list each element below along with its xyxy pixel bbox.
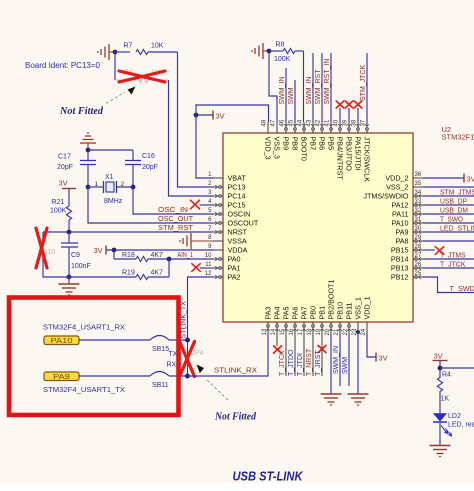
svg-text:SWM_IN: SWM_IN	[333, 346, 340, 374]
svg-text:8MHz: 8MHz	[104, 198, 123, 205]
svg-text:PB3/JTDO: PB3/JTDO	[345, 137, 354, 172]
node junction LED net	[438, 366, 443, 371]
pin 1 VBAT	[213, 177, 223, 179]
wire SB15 to JP4	[169, 339, 188, 341]
X over SB10	[36, 228, 47, 268]
svg-text:PB14: PB14	[391, 255, 409, 264]
svg-text:PB10: PB10	[336, 302, 345, 320]
wire 3V to R4	[439, 361, 441, 379]
X pin 11 PA1	[192, 264, 200, 272]
ground GND2 (for R8/VSS_3)	[262, 43, 264, 59]
svg-text:11: 11	[205, 262, 212, 268]
pin 36 VDD_2	[413, 177, 423, 179]
wire net STLINK_TX (vertical to PA2)	[188, 277, 214, 340]
X pin 38	[354, 101, 362, 108]
svg-text:PA6: PA6	[291, 306, 300, 319]
svg-text:VSS_2: VSS_2	[386, 183, 408, 192]
svg-text:29: 29	[415, 235, 422, 241]
wire LED to ground	[439, 422, 441, 446]
svg-text:27: 27	[415, 253, 422, 259]
wire pin 35 VSS_2	[423, 186, 474, 188]
pin 8 VSSA	[213, 240, 223, 242]
svg-text:10: 10	[205, 253, 212, 259]
svg-text:45: 45	[289, 119, 295, 126]
svg-text:JTMS/SWDIO: JTMS/SWDIO	[363, 192, 409, 201]
svg-text:VSS_1: VSS_1	[354, 297, 363, 319]
wire net USB_DP (pin 33)	[423, 204, 474, 206]
svg-text:3V: 3V	[379, 354, 388, 363]
svg-text:100K: 100K	[274, 56, 291, 63]
svg-text:T_JTCK: T_JTCK	[440, 262, 466, 269]
svg-text:18: 18	[307, 328, 313, 335]
wire net SWM (pin 45 PB8)	[294, 80, 296, 122]
svg-text:40: 40	[334, 119, 340, 126]
svg-text:14: 14	[271, 328, 277, 335]
node junction JP4 top	[185, 338, 190, 343]
pin 44 BOOT0	[303, 122, 305, 133]
wire R6 branch down	[114, 52, 116, 80]
svg-text:36: 36	[415, 172, 422, 178]
svg-text:100nF: 100nF	[71, 263, 91, 270]
pin 34 JTMS/SWDIO	[413, 195, 423, 197]
svg-text:SWM_RST: SWM_RST	[315, 69, 322, 105]
pin 43 PB7	[312, 122, 314, 133]
pin 3 PC14	[213, 195, 223, 197]
wire net SWM_IN (pin 43 PB7)	[312, 53, 314, 122]
wire SB11 to JP4	[169, 375, 188, 377]
svg-text:T_JTDI: T_JTDI	[297, 353, 304, 376]
pin 24 VDD_1	[366, 322, 368, 333]
wire gnd to C16	[88, 149, 133, 151]
svg-text:VSS_3: VSS_3	[273, 137, 282, 159]
pin 20 PB2/BOOT1	[330, 322, 332, 333]
svg-text:STLINK_RX: STLINK_RX	[214, 368, 257, 375]
wire R8 to BOOT0 pin 44	[303, 51, 305, 122]
pin 41 PB5	[330, 122, 332, 133]
solder bridge SB11	[150, 372, 169, 377]
svg-text:PB4/JNTRST: PB4/JNTRST	[336, 137, 345, 181]
svg-text:OSC_OUT: OSC_OUT	[158, 216, 194, 223]
svg-text:PC14: PC14	[228, 192, 246, 201]
pin 14 PA4	[276, 322, 278, 333]
svg-text:T_JTMS: T_JTMS	[440, 253, 466, 260]
svg-text:PC13: PC13	[228, 183, 246, 192]
svg-text:100K: 100K	[50, 208, 67, 215]
svg-text:PA3: PA3	[264, 306, 273, 319]
svg-text:PB15: PB15	[391, 246, 409, 255]
capacitor C9	[68, 232, 70, 243]
svg-text:OSC_IN: OSC_IN	[158, 207, 188, 214]
svg-text:PA9: PA9	[53, 374, 70, 381]
svg-text:41: 41	[325, 119, 331, 126]
wire net LED_STLINK (pin 30)	[423, 231, 474, 233]
node junction C9/GND/R19	[67, 275, 72, 280]
svg-text:3V: 3V	[216, 112, 225, 121]
pin 6 OSCOUT	[213, 222, 223, 224]
svg-text:31: 31	[415, 217, 422, 223]
resistor R8	[269, 50, 283, 52]
pin 32 PA11	[413, 213, 423, 215]
pin 9 VDDA	[213, 249, 223, 251]
svg-text:35: 35	[415, 181, 422, 187]
IC U2 STM32F103 body	[223, 133, 413, 322]
X pin 4 PC15	[191, 200, 200, 209]
wire pin 29 PA8	[423, 240, 474, 242]
node junction 3V/R18	[112, 248, 117, 253]
svg-text:LED, red: LED, red	[448, 422, 474, 429]
svg-text:39: 39	[343, 119, 349, 126]
svg-text:28: 28	[415, 244, 422, 250]
svg-text:PB9: PB9	[282, 137, 291, 151]
X pin 40	[336, 101, 344, 108]
svg-text:46: 46	[280, 119, 286, 126]
pin 10 PA0	[213, 258, 223, 260]
svg-text:PA10: PA10	[391, 219, 408, 228]
wire net T_JTDI (pin 17)	[303, 333, 305, 376]
svg-text:LD2: LD2	[448, 413, 461, 420]
svg-text:PB12: PB12	[391, 273, 409, 282]
ground GND6 (VSS_1)	[348, 393, 369, 395]
svg-text:PB0: PB0	[309, 306, 318, 320]
svg-text:USB_DP: USB_DP	[440, 199, 467, 206]
svg-text:PA4: PA4	[273, 306, 282, 319]
wire net SWM_RST_IN (pin 41 PB5)	[330, 53, 332, 122]
svg-text:R4: R4	[442, 372, 451, 379]
svg-text:3V: 3V	[59, 179, 68, 188]
solder bridge SB10 (not fitted)	[43, 232, 69, 277]
wire net T_JTMS (pin 27)	[423, 258, 474, 260]
wire net SWM_IN (pin 21)	[339, 333, 341, 386]
node X1 pin2	[131, 185, 136, 190]
node junction R7/R6/GND	[113, 50, 118, 55]
svg-text:43: 43	[307, 119, 313, 126]
pin 48 VDD_3	[267, 122, 269, 133]
node junction 3V/VBAT	[194, 113, 199, 118]
X pin 14 (PA4)	[276, 333, 278, 346]
svg-text:C9: C9	[71, 252, 80, 259]
wire pin 20 to ground	[330, 333, 332, 394]
svg-text:PA7: PA7	[300, 306, 309, 319]
svg-text:Not Fitted: Not Fitted	[59, 106, 104, 117]
svg-text:T_JTCK: T_JTCK	[279, 350, 286, 376]
svg-text:PB8: PB8	[291, 137, 300, 151]
power 3V (VBAT)	[212, 111, 214, 120]
svg-text:JP4: JP4	[192, 350, 204, 357]
wire net OSC_OUT	[88, 187, 213, 223]
svg-text:STM32F4_USART1_TX: STM32F4_USART1_TX	[43, 385, 125, 394]
wire pin 23 to ground	[357, 333, 359, 394]
node junction R21/C9/STM_RST	[67, 230, 72, 235]
svg-text:SB11: SB11	[152, 382, 169, 389]
svg-text:PB13: PB13	[391, 264, 409, 273]
svg-text:3V: 3V	[467, 175, 474, 184]
svg-text:3V: 3V	[94, 246, 103, 255]
svg-text:20pF: 20pF	[57, 164, 73, 171]
pin 33 PA12	[413, 204, 423, 206]
svg-text:T_JRST: T_JRST	[315, 350, 322, 376]
svg-text:SWM_IN: SWM_IN	[279, 77, 286, 105]
pin 13 PA3	[267, 322, 269, 333]
pin 19 PB1	[321, 322, 323, 333]
svg-text:23: 23	[352, 328, 358, 335]
svg-text:21: 21	[334, 328, 340, 335]
svg-text:SWM: SWM	[342, 357, 349, 374]
power 3V (VDD_2)	[463, 174, 465, 183]
crystal X1	[88, 186, 104, 188]
svg-text:10K: 10K	[151, 43, 164, 50]
pin 12 PA2	[213, 276, 223, 278]
pin 15 PA5	[285, 322, 287, 333]
ground GND1 (top-left, for R7)	[108, 44, 110, 60]
svg-text:34: 34	[415, 190, 422, 196]
svg-text:22: 22	[343, 328, 349, 335]
X over JP4	[180, 342, 195, 377]
svg-text:15: 15	[280, 328, 286, 335]
svg-text:VSSA: VSSA	[228, 237, 247, 246]
svg-text:C17: C17	[58, 154, 71, 161]
port PA10	[44, 336, 79, 345]
wire stub pin 39 (not fitted)	[348, 108, 350, 122]
node pin 23	[356, 330, 360, 334]
wire R6 to PC14	[169, 80, 214, 196]
ground GND4 (C9)	[68, 277, 70, 284]
wire VDDA	[106, 249, 213, 251]
svg-text:13: 13	[262, 328, 268, 335]
svg-text:4K7: 4K7	[151, 270, 164, 277]
svg-text:R18: R18	[122, 252, 135, 259]
wire net SWM_IN (pin 46 PB9)	[285, 68, 287, 122]
pin 31 PA10	[413, 222, 423, 224]
capacitor C17	[87, 150, 89, 161]
svg-text:PB11: PB11	[345, 302, 354, 319]
svg-text:R19: R19	[122, 270, 135, 277]
resistor R7	[136, 50, 148, 55]
pin 5 OSCIN	[213, 213, 223, 215]
svg-text:33: 33	[415, 199, 422, 205]
pin 38 PA15/JTDI	[357, 122, 359, 133]
svg-text:17: 17	[298, 328, 304, 335]
svg-text:USB ST-LINK: USB ST-LINK	[233, 470, 304, 484]
svg-text:STM32F103CBT6: STM32F103CBT6	[442, 133, 474, 142]
svg-text:SWM_IN: SWM_IN	[306, 77, 313, 105]
pin 22 PB11	[348, 322, 350, 333]
resistor R19	[69, 276, 136, 278]
svg-text:PA9: PA9	[395, 228, 408, 237]
port PA9	[44, 372, 79, 381]
svg-text:25: 25	[415, 271, 422, 277]
wire net OSC_IN	[133, 187, 213, 214]
svg-text:PA11: PA11	[392, 210, 409, 219]
solder bridge SB15	[150, 336, 169, 341]
pin 4 PC15	[213, 204, 223, 206]
wire net STM_RST	[43, 231, 213, 233]
pin 2 PC13	[213, 186, 223, 188]
svg-text:R21: R21	[52, 199, 65, 206]
svg-text:PC15: PC15	[228, 201, 246, 210]
wire LED net to edge	[440, 367, 474, 369]
wire net SWM_RST (pin 42 PB6)	[321, 53, 323, 122]
wire stub pin 38 (not fitted)	[357, 108, 359, 122]
pin 26 PB13	[413, 267, 423, 269]
svg-text:VDDA: VDDA	[228, 246, 248, 255]
svg-text:SWM: SWM	[288, 87, 295, 104]
svg-text:STM_JTCK: STM_JTCK	[360, 65, 367, 102]
node junction R18/R19	[167, 257, 172, 262]
svg-text:PA15/JTDI: PA15/JTDI	[354, 137, 363, 171]
wire net USB_DM (pin 32)	[423, 213, 474, 215]
svg-text:PA0: PA0	[228, 255, 241, 264]
svg-text:VDD_1: VDD_1	[363, 296, 372, 319]
svg-text:Not Fitted: Not Fitted	[214, 412, 257, 423]
wire to VBAT pin 1	[196, 115, 213, 178]
not-fitted X over R6	[119, 71, 165, 82]
svg-text:PA5: PA5	[282, 306, 291, 319]
red highlight rectangle	[9, 298, 179, 416]
wire net T_JTCK (pin 26)	[423, 267, 474, 269]
svg-text:OSCIN: OSCIN	[228, 210, 251, 219]
svg-text:PB1: PB1	[318, 306, 327, 320]
pin 39 PB3/JTDO	[348, 122, 350, 133]
pin 28 PB15	[413, 249, 423, 251]
pin 11 PA1	[213, 267, 223, 269]
svg-text:VDD_2: VDD_2	[385, 174, 408, 183]
resistor R18	[113, 250, 115, 259]
resistor R6 (not fitted, grayed)	[115, 79, 136, 81]
wire PA10 to SB15	[79, 339, 150, 341]
node X1 pin1	[86, 185, 91, 190]
svg-text:4K7: 4K7	[151, 252, 164, 259]
jumper JP4 (not fitted)	[187, 340, 189, 376]
wire 3V to VBAT and VDD_3	[196, 114, 213, 116]
svg-text:1K: 1K	[441, 396, 450, 403]
svg-text:STM_JTMS: STM_JTMS	[440, 190, 474, 197]
svg-text:16: 16	[289, 328, 295, 335]
ground GND8 (VSSA pin 8)	[190, 233, 192, 249]
wire pin 24 to 3V	[367, 333, 376, 357]
svg-text:37: 37	[361, 119, 367, 126]
ground GND7 (LD2)	[430, 445, 451, 447]
pin 46 PB9	[285, 122, 287, 133]
svg-text:32: 32	[415, 208, 422, 214]
pin 29 PA8	[413, 240, 423, 242]
svg-text:26: 26	[415, 262, 422, 268]
svg-text:48: 48	[262, 119, 268, 126]
ground GND5 (PB2/BOOT1)	[321, 393, 342, 395]
svg-text:PB6: PB6	[318, 137, 327, 151]
svg-text:Board Ident: PC13=0: Board Ident: PC13=0	[25, 61, 101, 70]
svg-text:C16: C16	[142, 153, 155, 160]
wire pin 36 to 3V	[423, 177, 464, 179]
wire net T_JTDO (pin 16)	[294, 333, 296, 376]
svg-text:20: 20	[325, 328, 331, 335]
svg-text:T_SWO: T_SWO	[440, 217, 464, 224]
svg-text:X1: X1	[105, 174, 114, 181]
X pin 28 PB15	[423, 249, 435, 251]
capacitor C16	[132, 150, 134, 161]
wire GND to VSS_3 pin 47	[269, 51, 277, 122]
svg-text:1: 1	[95, 181, 99, 188]
svg-text:VDD_3: VDD_3	[264, 137, 273, 160]
wire net STLINK_RX	[188, 333, 269, 376]
wire stub pin 40 (not fitted)	[339, 108, 341, 122]
svg-text:12: 12	[205, 271, 212, 277]
svg-text:38: 38	[352, 119, 358, 126]
svg-text:SB15: SB15	[152, 346, 169, 353]
svg-text:T_NRST: T_NRST	[306, 348, 313, 376]
wire net T_SWO (pin 31)	[423, 222, 474, 224]
svg-text:R8: R8	[276, 42, 285, 49]
svg-text:42: 42	[316, 119, 322, 126]
resistor R4	[437, 378, 442, 392]
svg-text:LED_STLINK: LED_STLINK	[440, 226, 474, 233]
svg-text:PA12: PA12	[391, 201, 408, 210]
LED LD2	[433, 413, 447, 421]
wire net T_SWDIO (pin 25)	[423, 277, 474, 293]
svg-text:PA2: PA2	[228, 273, 241, 282]
pin 45 PB8	[294, 122, 296, 133]
node junction R8/GND/VSS_3	[267, 49, 272, 54]
wire net STM_JTMS (pin 34)	[423, 195, 474, 197]
svg-text:20pF: 20pF	[142, 164, 158, 171]
wire net T_JTCK (pin 15)	[285, 333, 287, 376]
svg-text:44: 44	[298, 119, 304, 126]
pin 23 VSS_1	[357, 322, 359, 333]
wire net STM_JTCK (pin 37)	[366, 53, 368, 122]
svg-text:OSCOUT: OSCOUT	[228, 219, 259, 228]
ground GND3 (crystal caps)	[80, 142, 96, 144]
power 3V (VDD_1)	[375, 353, 377, 362]
X pin 19 (T_JRST not fitted)	[318, 345, 326, 352]
svg-text:AIN_1: AIN_1	[178, 252, 194, 259]
svg-text:R7: R7	[124, 43, 133, 50]
svg-text:STLINK_TX: STLINK_TX	[181, 301, 188, 339]
pin 27 PB14	[413, 258, 423, 260]
svg-text:T_JTDO: T_JTDO	[288, 349, 295, 376]
wire net T_JRST (pin 19)	[321, 333, 323, 376]
svg-text:PB7: PB7	[309, 137, 318, 151]
pin 42 PB6	[321, 122, 323, 133]
node junction C17/C16 gnd	[86, 148, 91, 153]
svg-text:PB2/BOOT1: PB2/BOOT1	[327, 280, 336, 320]
pin 18 PB0	[312, 322, 314, 333]
svg-text:30: 30	[415, 226, 422, 232]
svg-text:STM32F4_USART1_RX: STM32F4_USART1_RX	[43, 323, 125, 332]
svg-text:PB5: PB5	[327, 137, 336, 151]
wire R7 to PC13	[178, 52, 214, 187]
svg-text:BOOT0: BOOT0	[300, 137, 309, 161]
svg-text:PA10: PA10	[51, 338, 73, 345]
svg-text:PA8: PA8	[395, 237, 408, 246]
wire net SWM (pin 22)	[348, 333, 350, 386]
svg-text:RX: RX	[167, 362, 177, 369]
svg-text:SWM_RST_IN: SWM_RST_IN	[324, 59, 331, 105]
pin 25 PB12	[413, 276, 423, 278]
wire PA9 to SB11	[79, 375, 150, 377]
wire net T_NRST (pin 18)	[312, 333, 314, 376]
svg-text:VBAT: VBAT	[228, 174, 247, 183]
pin 37 JTCK/SWCLK	[366, 122, 368, 133]
svg-text:24: 24	[361, 328, 367, 335]
svg-text:PA1: PA1	[228, 264, 241, 273]
pin 40 PB4/JNTRST	[339, 122, 341, 133]
svg-text:47: 47	[271, 119, 277, 126]
node junction JP4 bottom	[185, 374, 190, 379]
svg-text:3V: 3V	[434, 352, 443, 361]
svg-text:2: 2	[121, 181, 125, 188]
svg-text:T_SWDIO: T_SWDIO	[450, 286, 474, 293]
wire to VDD_3 pin 48	[196, 105, 269, 122]
pin 17 PA7	[303, 322, 305, 333]
